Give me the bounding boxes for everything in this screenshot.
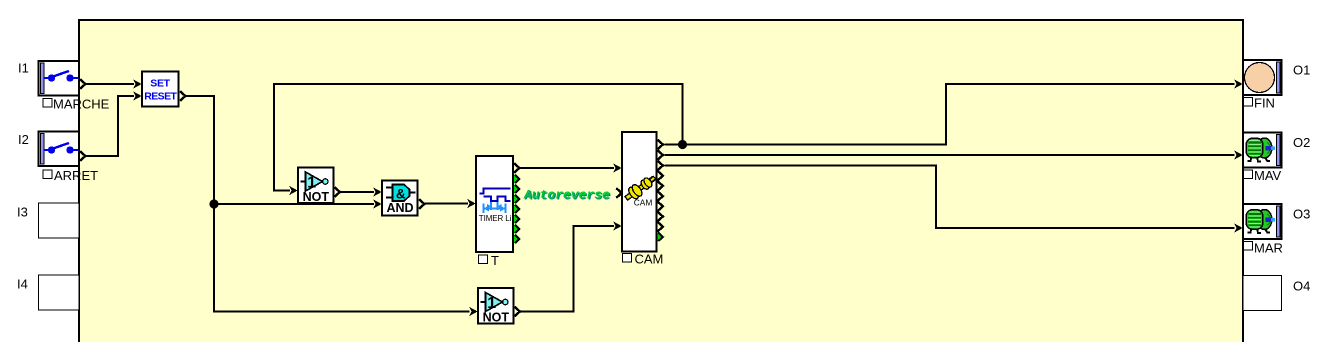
- wire I1 to U1 SET input: [86, 83, 135, 85]
- pin U6 output chevron: [515, 307, 520, 317]
- pin U2 output chevron: [335, 187, 340, 197]
- svg-text:RESET: RESET: [144, 91, 177, 103]
- pin U4 link chevron 3: [514, 194, 519, 203]
- svg-text:CAM: CAM: [634, 198, 653, 208]
- pin U1 output chevron: [180, 91, 185, 101]
- arrowhead into U3 input 2: [373, 199, 382, 209]
- arrowhead into U1 RESET: [133, 91, 142, 101]
- wire TIMER output to CAM input 1: [520, 167, 614, 169]
- svg-text:AND: AND: [386, 201, 413, 215]
- pin I2 output chevron: [80, 151, 85, 161]
- svg-text:O3: O3: [1293, 207, 1310, 222]
- output block O3: [1243, 204, 1282, 239]
- pin U5 output chevron 9: [658, 222, 663, 232]
- lamp icon O1: [1245, 63, 1275, 93]
- wire U6 NOT output to CAM input 2: [521, 226, 615, 312]
- wire branch junction to U3 AND input 2: [214, 203, 374, 205]
- pin U5 output chevron 7: [658, 202, 663, 212]
- pin I1 output chevron: [80, 79, 85, 89]
- svg-text:NOT: NOT: [303, 190, 330, 204]
- svg-text:1: 1: [307, 175, 316, 192]
- pin U4 link chevron 1: [514, 174, 519, 183]
- output O3 connector bar: [1277, 206, 1281, 237]
- arrowhead into U1 SET: [133, 79, 142, 89]
- input block I2: [39, 132, 80, 167]
- pin U5 output chevron 4: [658, 171, 663, 181]
- junction node at U1 output bus: [209, 199, 218, 208]
- motor icon O2: [1246, 138, 1275, 161]
- checkbox I1: [43, 99, 52, 108]
- output O2 connector bar: [1277, 135, 1281, 166]
- pin U5 output chevron 2: [658, 150, 663, 160]
- arrowhead into U6 input: [469, 307, 478, 317]
- TIMER U4 waveform icon: [480, 189, 511, 214]
- pin U4 link chevron 4: [514, 204, 519, 213]
- pin U5 link input chevron: [616, 188, 621, 198]
- input block I4 (empty): [39, 275, 80, 310]
- pin U5 output chevron 3: [658, 161, 663, 171]
- svg-text:MAV: MAV: [1254, 168, 1282, 183]
- wire CAM output 1 to O1: [683, 84, 1235, 145]
- NOT U6 triangle symbol: [481, 293, 508, 312]
- output block O2: [1243, 133, 1282, 168]
- svg-text:NOT: NOT: [483, 311, 510, 325]
- CAM U5 camshaft icon: [622, 172, 658, 203]
- input I1 connector bar: [41, 63, 45, 94]
- wire CAM output 1 feedback loop to NOT1 input: [274, 84, 683, 191]
- input block I1: [39, 61, 80, 96]
- wire CAM output 2 to O2: [665, 154, 1235, 156]
- switch contact icon I2: [44, 143, 79, 154]
- pin U5 output chevron 5: [658, 181, 663, 191]
- svg-text:MARCHE: MARCHE: [53, 97, 110, 112]
- svg-text:ARRET: ARRET: [54, 168, 98, 183]
- arrowhead into U3 input 1: [373, 187, 382, 197]
- svg-text:FIN: FIN: [1254, 96, 1275, 111]
- wire CAM output 3 to O3: [665, 166, 1235, 229]
- NOT U2 triangle symbol: [301, 172, 328, 191]
- output block O4 (empty): [1243, 276, 1282, 311]
- checkbox O1: [1244, 98, 1253, 107]
- pin U4 link chevron 7: [514, 234, 519, 243]
- wire I2 to U1 RESET input: [86, 96, 135, 156]
- link label Autoreverse: [523, 187, 611, 203]
- arrowhead into U5 input 2: [613, 221, 622, 231]
- pin U4 link chevron 6: [514, 224, 519, 233]
- pin U5 output chevron 8: [658, 212, 663, 222]
- pin U4 link chevron 2: [514, 184, 519, 193]
- AND gate U3 block: [382, 181, 418, 216]
- pin U3 output chevron: [419, 199, 424, 209]
- wire U1 output to junction and NOT2/AND: [186, 96, 470, 312]
- CAM block U5: [622, 132, 657, 252]
- checkbox O2: [1244, 170, 1253, 179]
- TIMER block U4: [476, 156, 513, 252]
- svg-text:I2: I2: [18, 132, 29, 147]
- AND U3 symbol: [386, 185, 416, 202]
- wire U2 NOT output to U3 AND input 1: [340, 191, 374, 193]
- motor icon O3: [1246, 210, 1275, 233]
- svg-text:O4: O4: [1293, 279, 1310, 294]
- NOT gate U2 block: [298, 168, 334, 204]
- arrowhead into U5 input 1: [613, 163, 622, 173]
- checkbox T: [479, 255, 488, 264]
- arrowhead into O1: [1234, 79, 1243, 89]
- svg-text:&: &: [396, 186, 406, 201]
- arrowhead into U2 input: [289, 186, 298, 196]
- switch contact icon I1: [44, 71, 79, 82]
- svg-text:I3: I3: [17, 205, 28, 220]
- svg-text:TIMER Li: TIMER Li: [479, 214, 512, 223]
- checkbox CAM: [623, 254, 632, 263]
- arrowhead into O2: [1234, 150, 1243, 160]
- svg-text:T: T: [491, 253, 499, 268]
- input I2 connector bar: [41, 134, 45, 165]
- arrowhead into U4 input: [467, 199, 476, 209]
- output block O1: [1243, 60, 1282, 95]
- checkbox O3: [1244, 242, 1253, 251]
- pin U4 link chevron 5: [514, 214, 519, 223]
- svg-text:1: 1: [487, 295, 496, 312]
- NOT gate U6 block: [478, 288, 514, 324]
- svg-text:MAR: MAR: [1254, 241, 1283, 256]
- svg-text:SET: SET: [150, 78, 170, 90]
- output O1 connector bar: [1277, 62, 1281, 93]
- svg-text:O2: O2: [1293, 135, 1310, 150]
- svg-text:I1: I1: [18, 61, 29, 76]
- pin U5 link chevron green: [658, 232, 663, 241]
- svg-text:CAM: CAM: [635, 252, 664, 267]
- wire U3 AND output to TIMER input: [425, 203, 469, 205]
- pin U5 output chevron 1: [658, 140, 663, 150]
- pin U4 output chevron: [514, 163, 519, 173]
- pin U5 output chevron 6: [658, 191, 663, 201]
- checkbox I2: [43, 170, 52, 179]
- svg-text:O1: O1: [1293, 63, 1310, 78]
- arrowhead into O3: [1234, 223, 1243, 233]
- input block I3 (empty): [39, 203, 80, 238]
- svg-text:Autoreverse: Autoreverse: [523, 187, 610, 202]
- svg-text:I4: I4: [17, 277, 28, 292]
- SET/RESET latch block U1: [142, 72, 179, 107]
- junction node at CAM output 1: [678, 140, 687, 149]
